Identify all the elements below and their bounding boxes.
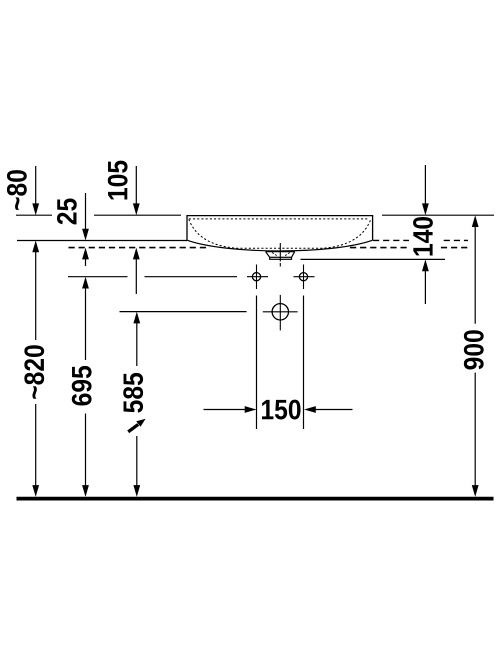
dimension 150 left arrow	[204, 406, 257, 413]
extension line from right faucet hole down	[303, 296, 305, 430]
tick drain level y=311.6 (for 585)	[120, 311, 247, 313]
basin inner bowl dashed curve	[189, 219, 371, 248]
label ~80	[7, 170, 27, 210]
tick rim level mid (for 105)	[94, 214, 181, 216]
drain outlet trapezoid	[266, 252, 295, 260]
dimension 900 line with arrows	[472, 215, 479, 497]
basin inner rim dotted line	[189, 218, 368, 220]
faucet hole right circle with crosshair	[294, 265, 315, 290]
floor line	[17, 497, 494, 501]
drain centerline	[279, 243, 281, 267]
basin outer rim top	[187, 216, 373, 241]
dimension 140 bottom arrow	[422, 259, 429, 304]
extension line from left faucet hole down	[256, 296, 258, 430]
wire counter top solid line (left)	[17, 240, 187, 242]
wire dashed counter level line y=247.6 (left segment)	[69, 247, 211, 249]
dimension 585 line with arrows	[133, 312, 140, 497]
basin outer bottom curve	[187, 240, 373, 251]
wire dashed counter level line y=247.6 (right segment)	[350, 247, 468, 249]
label 25	[57, 198, 77, 224]
dimension 105 bottom arrow	[133, 248, 140, 294]
dimension 105 line and arrow	[133, 166, 140, 215]
diagonal slope arrow under 585	[128, 419, 145, 432]
dimension 695 line with arrows	[82, 277, 89, 497]
dimension 150 right arrow	[304, 406, 353, 413]
wire dashed counter top line y=240.4 (right segment)	[373, 239, 468, 241]
label ~820	[24, 345, 44, 399]
dimension ~80 line and arrow	[32, 166, 39, 215]
drain hidden dashed edges	[272, 253, 290, 256]
label 105	[108, 161, 128, 200]
label 900	[464, 330, 484, 369]
drain circle with crosshair	[263, 295, 298, 331]
tick rim level right (for 140 / 900)	[382, 214, 494, 216]
dimension 25 bottom arrow	[82, 248, 89, 266]
dimension 140 top arrow	[422, 165, 429, 215]
faucet hole left circle with crosshair	[247, 265, 268, 290]
label 140 (with white background over dashes)	[409, 217, 440, 256]
dimension 25 top arrow	[82, 193, 89, 241]
basin body white fill	[187, 216, 373, 251]
tick basin bottom right y=259.4 (for 140)	[301, 258, 446, 260]
tick rim level left (for ~80)	[16, 214, 52, 216]
label 150	[262, 400, 301, 420]
label 695	[72, 366, 92, 406]
tick faucet level y=276.7 (for 695)	[68, 276, 237, 278]
dimension ~820 line with arrows	[32, 241, 39, 497]
label 585	[123, 373, 143, 413]
